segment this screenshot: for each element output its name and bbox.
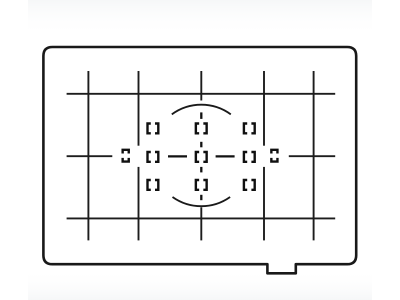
AF point mid-left <box>148 152 159 162</box>
grid vertical line 2 lower <box>138 167 140 241</box>
grid horizontal line bottom <box>67 217 336 219</box>
spot metering circle top arc <box>172 105 231 115</box>
AF point outer-right <box>271 150 277 162</box>
AF point center <box>196 152 207 162</box>
grid vertical line 4 lower <box>263 167 265 241</box>
grid vertical line 4 upper <box>263 71 265 146</box>
AF point top-center <box>196 123 207 133</box>
grid vertical line 5 <box>313 71 315 240</box>
center column dash d <box>200 195 202 200</box>
grid center row right segment <box>289 155 335 157</box>
center column dash b <box>200 142 202 148</box>
AF point top-right <box>244 123 255 133</box>
AF point mid-right <box>244 152 255 162</box>
grid vertical line 3 lower <box>200 207 202 240</box>
center column dash a <box>200 112 202 119</box>
grid vertical line 2 upper <box>138 71 140 146</box>
AF point top-left <box>148 123 159 133</box>
AF point bottom-center <box>196 180 207 190</box>
AF point outer-left <box>123 150 129 162</box>
grid vertical line 1 <box>87 71 89 240</box>
AF point bottom-left <box>148 180 159 190</box>
grid horizontal line top <box>67 93 336 95</box>
center row dash right <box>216 155 235 157</box>
center column dash c <box>200 167 202 173</box>
center row dash left <box>168 155 187 157</box>
spot metering circle bottom arc <box>173 197 231 206</box>
focusing screen outline with bottom tab <box>43 47 356 273</box>
grid vertical line 3 upper <box>200 71 202 101</box>
grid center row left segment <box>67 155 113 157</box>
AF point bottom-right <box>244 180 255 190</box>
